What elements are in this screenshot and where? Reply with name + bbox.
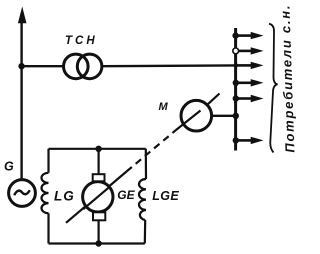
svg-text:LG: LG xyxy=(54,189,75,204)
svg-text:М: М xyxy=(159,101,169,113)
svg-text:LGE: LGE xyxy=(152,189,179,203)
svg-text:ТСН: ТСН xyxy=(65,35,98,47)
svg-text:GE: GE xyxy=(117,188,135,202)
svg-text:G: G xyxy=(4,160,14,174)
svg-text:Потребители с.н.: Потребители с.н. xyxy=(277,4,297,153)
